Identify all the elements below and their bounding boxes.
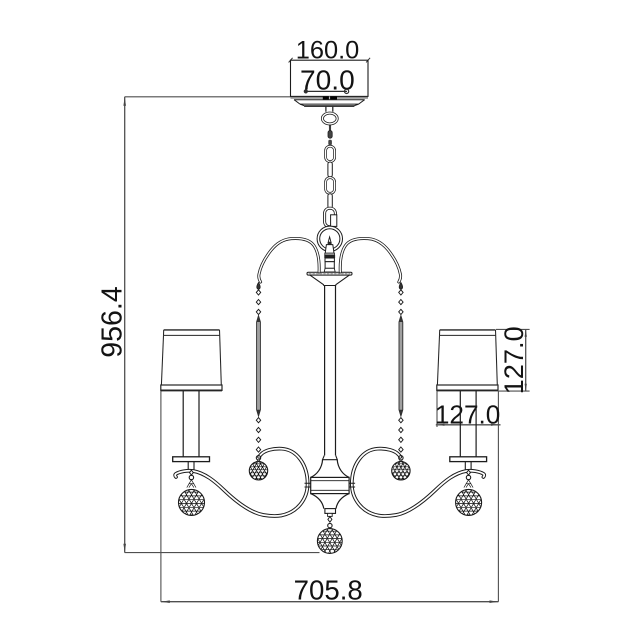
tick marks on canopy box top corners — [289, 58, 371, 63]
bobeche funnel — [310, 275, 350, 285]
left candle tube — [183, 391, 199, 457]
right cup stem — [465, 462, 471, 470]
socket cylinder — [325, 258, 334, 262]
spindle neck — [328, 513, 333, 516]
chain wire under ring — [329, 125, 330, 131]
right candle tube — [460, 391, 476, 457]
right cup plate — [450, 457, 487, 462]
socket foot — [324, 268, 335, 272]
extension line bottom left (fixture bottom level) — [125, 552, 320, 554]
spindle upper cone — [311, 460, 349, 478]
left upper arm — [259, 238, 319, 282]
bobeche plate — [307, 272, 352, 275]
left string crown — [254, 460, 262, 464]
bottom crystal ball — [317, 529, 342, 554]
extension line 127.0 height bottom — [499, 390, 530, 392]
small connector — [328, 140, 332, 145]
left bead chain lower — [256, 418, 260, 423]
right lamp shade — [437, 330, 498, 391]
extension line top left (canopy top level) — [125, 96, 291, 98]
svg-text:127.0: 127.0 — [498, 326, 529, 394]
spindle lower cone — [311, 494, 349, 509]
socket dark band — [324, 255, 335, 258]
hanging ring top — [322, 113, 337, 124]
right bead chain lower — [399, 418, 403, 423]
dimension line 70.0 with dot ends — [304, 89, 349, 93]
spindle cap — [325, 509, 336, 514]
left string crystal ball — [249, 462, 267, 480]
mounting box — [291, 60, 369, 96]
spike collar dark — [328, 242, 332, 244]
extension line 127.0 width left — [436, 391, 438, 427]
left cup crown — [187, 480, 196, 488]
bottom small ring — [328, 523, 332, 527]
chain link 3 — [326, 178, 335, 194]
candle rim — [325, 253, 335, 255]
bottom hook drop — [328, 517, 332, 523]
socket tube — [325, 262, 334, 269]
black terminal bar — [323, 97, 337, 100]
right string crown — [397, 460, 405, 464]
dimension line 127.0 width — [436, 424, 501, 426]
right cup small ring — [466, 475, 470, 479]
right lower arm — [352, 449, 484, 516]
mounting plate line — [291, 97, 369, 99]
left cup small ring — [189, 475, 193, 479]
extension line 127.0 height top — [496, 328, 530, 330]
right upper arm — [340, 238, 400, 282]
bottom crown — [325, 528, 335, 532]
center column tube — [325, 286, 336, 456]
canopy stem — [326, 107, 333, 112]
finial spike — [328, 237, 331, 242]
svg-text:127.0: 127.0 — [435, 399, 501, 429]
small chain link (edge view) — [328, 131, 332, 139]
right string small ring — [399, 456, 403, 460]
left string small ring — [256, 456, 260, 460]
left cup stem — [188, 462, 194, 470]
extension line 705.8 right — [497, 391, 499, 602]
left arm tip drop bead — [257, 282, 260, 289]
left cup crystal ball — [179, 489, 205, 515]
left bead chain upper — [256, 290, 260, 295]
left crystal rod — [257, 316, 261, 417]
dimension line 956.4 vertical — [123, 97, 126, 553]
left cup plate — [173, 457, 210, 462]
arm stub left — [305, 483, 311, 487]
right string crystal ball — [392, 462, 410, 480]
right crystal rod — [399, 316, 403, 417]
canopy — [294, 100, 365, 106]
left lower arm — [175, 449, 307, 516]
right arm tip drop bead — [399, 282, 402, 289]
right cup crown — [464, 480, 473, 488]
svg-text:705.8: 705.8 — [294, 575, 363, 606]
dimension line 705.8 — [161, 600, 499, 603]
spindle band — [311, 477, 349, 493]
left lamp shade — [161, 330, 222, 391]
arm stub right — [349, 483, 355, 487]
svg-text:956.4: 956.4 — [97, 286, 129, 358]
right cup bead — [467, 470, 471, 475]
right bead chain upper — [399, 290, 403, 295]
candle body — [325, 245, 334, 254]
left cup bead — [190, 470, 194, 475]
chain link 1 — [326, 146, 335, 161]
quick link with barrel — [325, 208, 337, 227]
extension line 705.8 left — [160, 391, 162, 602]
hanging ring large — [318, 227, 341, 250]
right cup crystal ball — [456, 489, 482, 515]
chain link 2 edge — [328, 162, 332, 177]
chain link 4 edge — [328, 194, 332, 209]
dimension line 127.0 height vertical — [525, 329, 527, 391]
svg-text:70.0: 70.0 — [300, 64, 355, 95]
column flare — [323, 455, 338, 459]
